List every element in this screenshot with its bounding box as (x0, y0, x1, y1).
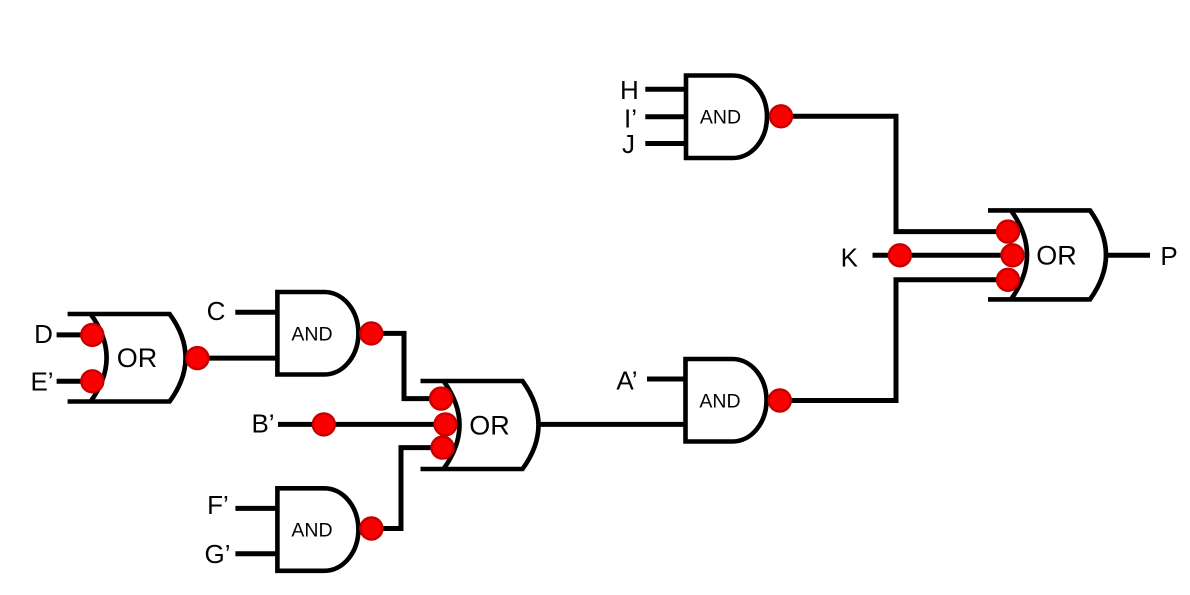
wire A' input (647, 377, 686, 382)
and-gate AND5 (686, 359, 767, 442)
svg-text:AND: AND (699, 390, 740, 412)
or-gate OR3 (421, 381, 539, 469)
node dot OR3 input 3 (432, 437, 454, 459)
svg-text:J: J (622, 129, 635, 159)
node dot AND2 output (360, 322, 382, 344)
svg-text:OR: OR (117, 343, 158, 373)
svg-text:OR: OR (1036, 240, 1077, 270)
svg-text:F’: F’ (207, 490, 229, 520)
svg-text:AND: AND (291, 323, 332, 345)
svg-text:OR: OR (469, 411, 510, 441)
wire AND5 output to OR6 input 3 (767, 280, 1011, 401)
svg-text:E’: E’ (30, 367, 53, 397)
svg-text:D: D (34, 319, 53, 349)
or-gate OR1 (68, 314, 186, 402)
wire G' input (235, 551, 277, 556)
node dot AND1 output (770, 105, 792, 127)
wire OR6 output P (1106, 253, 1150, 258)
node dot OR3 input 1 (430, 388, 452, 410)
wire AND4 output to OR3 input 3 (358, 448, 445, 529)
svg-text:B’: B’ (251, 409, 274, 439)
node dot OR1 input 2 (81, 370, 103, 392)
svg-text:K: K (841, 243, 859, 273)
svg-text:G’: G’ (205, 539, 231, 569)
wire I' input (645, 114, 686, 119)
wire D input (57, 332, 93, 337)
node dot OR1 input 1 (81, 324, 103, 346)
wire K input (873, 253, 1016, 258)
svg-text:C: C (207, 296, 226, 326)
node dot OR6 input 1 (997, 221, 1019, 243)
wire E' input (57, 379, 93, 384)
wire AND1 output to OR6 input 1 (768, 116, 1011, 231)
wire J input (645, 141, 686, 146)
svg-text:H: H (620, 75, 639, 105)
wire C input (235, 310, 277, 315)
and-gate AND1 top (686, 76, 767, 159)
or-gate OR6 (988, 210, 1106, 299)
wire H input (645, 87, 686, 92)
node dot OR3 input 2 (435, 413, 457, 435)
and-gate AND2 (277, 292, 358, 375)
wire AND2 output to OR3 input 1 (358, 333, 443, 398)
svg-text:AND: AND (291, 520, 332, 542)
node dot B' (313, 413, 335, 435)
svg-text:AND: AND (700, 107, 741, 129)
node dot K (889, 244, 911, 266)
node dot OR6 input 2 (1002, 244, 1024, 266)
and-gate AND4 (277, 488, 358, 571)
wire B' input (278, 422, 448, 427)
svg-text:A’: A’ (616, 366, 637, 396)
wire OR1 output to AND2 (186, 356, 278, 361)
node dot AND5 output (769, 390, 791, 412)
svg-text:P: P (1160, 241, 1177, 271)
node dot OR6 input 3 (997, 269, 1019, 291)
node dot OR1 output (186, 347, 208, 369)
wire F' input (235, 506, 277, 511)
node dot AND4 output (360, 518, 382, 540)
wire OR3 output to AND5 (539, 422, 686, 427)
